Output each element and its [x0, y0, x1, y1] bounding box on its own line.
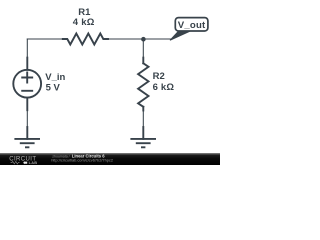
svg-text:6 kΩ: 6 kΩ: [153, 82, 175, 93]
svg-text:5 V: 5 V: [46, 82, 61, 93]
svg-text:V_out: V_out: [178, 20, 206, 31]
svg-text:4 kΩ: 4 kΩ: [73, 17, 95, 28]
svg-text:LAB: LAB: [29, 161, 38, 165]
svg-text:R2: R2: [153, 71, 165, 82]
svg-text:http://circuitlab.com/c/cv67b2: http://circuitlab.com/c/cv67b2/7hpc2: [51, 158, 113, 163]
